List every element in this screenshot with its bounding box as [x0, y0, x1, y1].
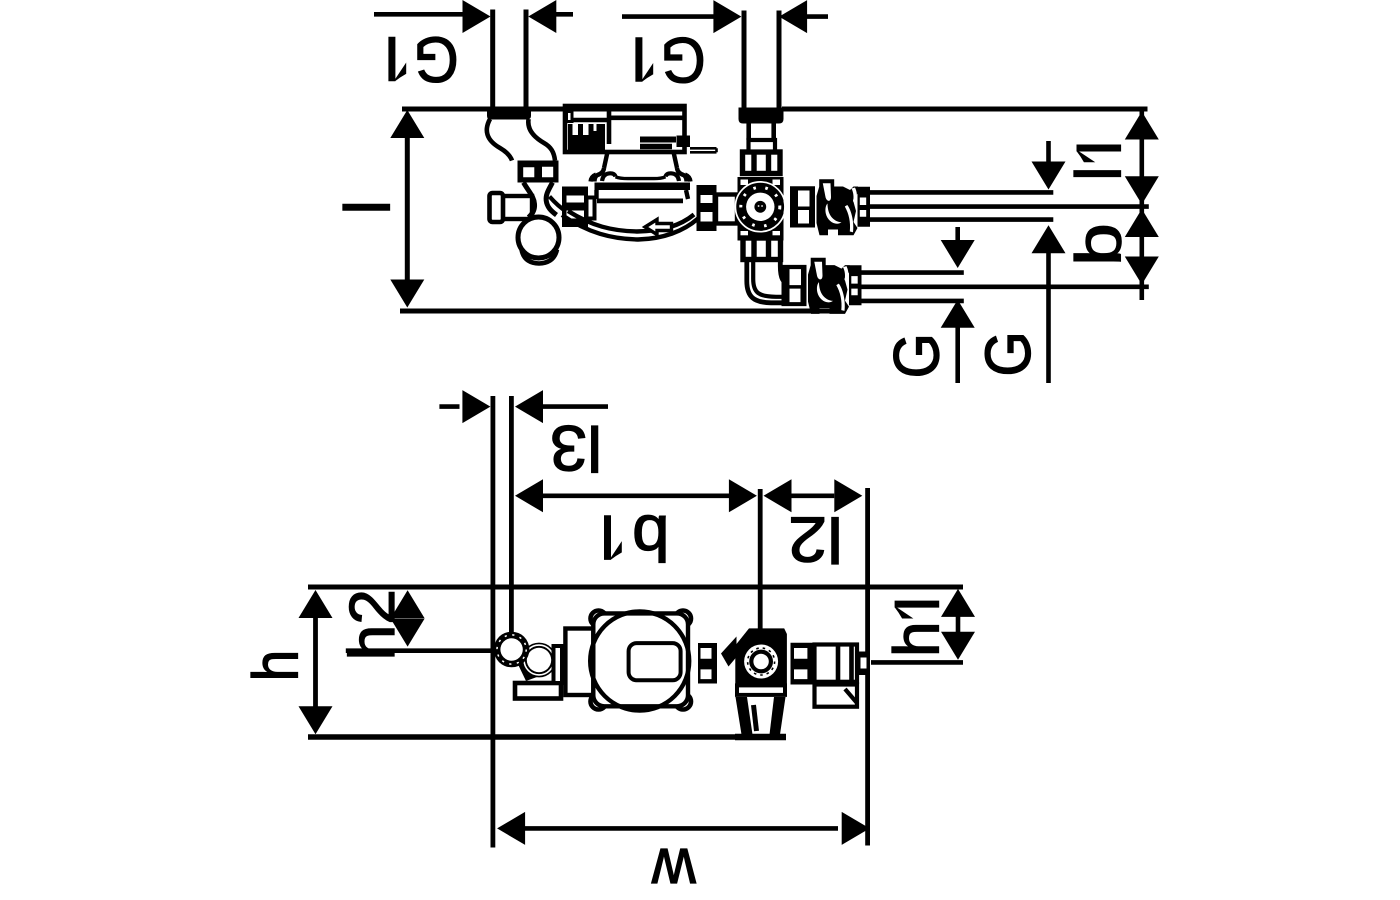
dimension l1 / b: right vertical dimension line — [1125, 110, 1159, 300]
plan: valve bottom flange — [737, 685, 785, 695]
pump nameplate bars — [640, 137, 676, 150]
dimension G1 left: label G1 (rotated 180) — [389, 24, 459, 95]
pump volute bottom outline (outer) — [562, 215, 698, 240]
three-way valve body — [738, 177, 784, 241]
dimension G lower-left: leader line with arrows — [941, 227, 975, 383]
pump terminal cover (black) — [568, 124, 605, 152]
plan: motor flange corner ears — [591, 611, 692, 710]
plan: right port — [857, 652, 870, 676]
svg-text:G: G — [660, 24, 705, 95]
union nut of isolating valve (black with windows) — [518, 161, 559, 183]
pipe connector block left (black) — [487, 108, 531, 120]
nut above valve — [749, 140, 776, 152]
plan: three-way valve body — [735, 628, 787, 685]
plan: valve stem circles — [744, 645, 778, 679]
extension line right port — [865, 488, 870, 846]
pump inlet union nut (black with slots) — [562, 187, 588, 228]
extension line left (through pump port axis) — [490, 396, 495, 848]
svg-text:G: G — [413, 24, 458, 95]
flow direction arrow on volute — [645, 220, 672, 235]
extension line second (port centre) — [509, 396, 514, 633]
plan: bracket base bar — [735, 734, 786, 741]
dimension b1: label b1 (rotated 180) — [605, 502, 670, 573]
svg-text:l2: l2 — [788, 503, 843, 574]
plan: motor nameplate — [629, 643, 681, 680]
dimension w: dimension line — [497, 812, 870, 845]
plan: ball valve handle — [815, 685, 858, 707]
dimension l3: dimension line with outside arrows — [439, 390, 608, 423]
pump stator shell — [597, 190, 689, 199]
dimension G1 left: extension lines (pipe walls extended) — [493, 10, 526, 109]
svg-text:h: h — [240, 650, 312, 682]
capacitor rod — [690, 148, 717, 152]
plan: ball valve body with stripes — [815, 645, 858, 682]
svg-text:l3: l3 — [550, 413, 602, 484]
dimension h: vertical line with arrows — [299, 590, 333, 734]
plan: elbow flange ring — [522, 643, 557, 678]
bottom boundary line of plan view — [308, 734, 757, 740]
dimension G lower-right: leader line with arrows — [1032, 141, 1066, 383]
supply pipe upper (three lines) — [869, 192, 1053, 219]
dimension G1 left: dimension line — [374, 0, 573, 33]
pump head shoulders with ears — [595, 168, 605, 182]
plan: left port flange ring — [494, 632, 530, 668]
dimension G1 right: dimension line — [622, 0, 828, 33]
svg-text:G: G — [881, 333, 952, 378]
svg-text:l: l — [332, 200, 404, 214]
svg-text:w: w — [651, 835, 697, 900]
plan: union hex nut (black with slots) — [698, 643, 717, 684]
elbow below valve — [747, 260, 784, 303]
dimension h1: vertical line with arrows — [941, 589, 975, 660]
plan: pump housing rectangle — [565, 629, 593, 696]
pump stator band upper (black) — [595, 183, 691, 191]
pipe connector block right (black) — [739, 108, 784, 124]
S-bend pipe from left connector down to isolating valve — [487, 119, 512, 161]
top boundary line of plan view — [308, 585, 963, 590]
three-way valve knob (black ring with specks) — [737, 183, 785, 231]
plan: wall bracket trapezoid legs — [736, 697, 753, 735]
pump inlet stub — [587, 198, 595, 219]
dimension h2: stacked arrows — [391, 590, 425, 646]
dimension h2: extension line to pump axis — [346, 648, 494, 653]
valve bottom fitting — [743, 238, 781, 260]
plan: elbow support plate — [515, 683, 561, 699]
svg-text:G: G — [973, 331, 1044, 376]
dimension l: vertical dimension line with arrows — [390, 110, 424, 308]
dimension G1 right: label G1 (rotated 180) — [636, 24, 706, 95]
svg-text:b: b — [632, 502, 669, 573]
valve bottom cap — [522, 250, 558, 264]
valve top fitting — [743, 152, 781, 174]
pump outlet union nut (black with slots) — [697, 185, 717, 231]
plan: motor flange square — [593, 613, 688, 706]
valve inlet stub — [716, 195, 737, 224]
pump motor terminal box — [565, 106, 685, 152]
bottom boundary line of side view — [400, 309, 842, 314]
dimension l2: dimension line — [764, 479, 863, 512]
valve ball body — [518, 217, 559, 258]
pump stator band lower (black) — [597, 199, 683, 204]
extension line valve stem axis — [758, 489, 763, 629]
plan: motor circle — [590, 612, 689, 711]
ball valve lower (reuse, shifted) — [782, 258, 862, 314]
dimension h1: label h1 (rotated 90 CCW) — [881, 601, 953, 657]
plan: union between elbow and housing — [554, 646, 563, 683]
top boundary line of side view — [402, 107, 1148, 112]
dimension h1: extension line right port axis — [871, 660, 963, 665]
pump neck below motor — [604, 152, 677, 168]
ball valve upper (black body with handle cutouts) — [790, 179, 870, 235]
svg-text:b: b — [1063, 223, 1135, 266]
plan: ball valve hex nut (black with slots) — [791, 643, 813, 685]
isolating valve body (hourglass) — [524, 183, 535, 218]
dimension G1 right: extension lines — [744, 11, 779, 109]
side port (thermometer pocket) — [502, 196, 532, 219]
return pipe lower (three lines) — [859, 273, 964, 301]
plan: elbow connector block (black) — [514, 644, 556, 681]
dimension b1: dimension line — [515, 479, 757, 512]
svg-text:h2: h2 — [336, 589, 408, 660]
vertical pipe above valve — [749, 124, 774, 141]
side port end cap — [490, 193, 504, 222]
pump capacitor stub — [677, 136, 691, 148]
svg-text:h: h — [881, 621, 953, 657]
dimension l1: label l1 (rotated 90 CCW) — [1063, 145, 1135, 181]
plan: valve beak lug — [721, 637, 737, 667]
pump volute bottom outline (inner) — [568, 211, 694, 232]
svg-text:l: l — [1063, 166, 1135, 180]
